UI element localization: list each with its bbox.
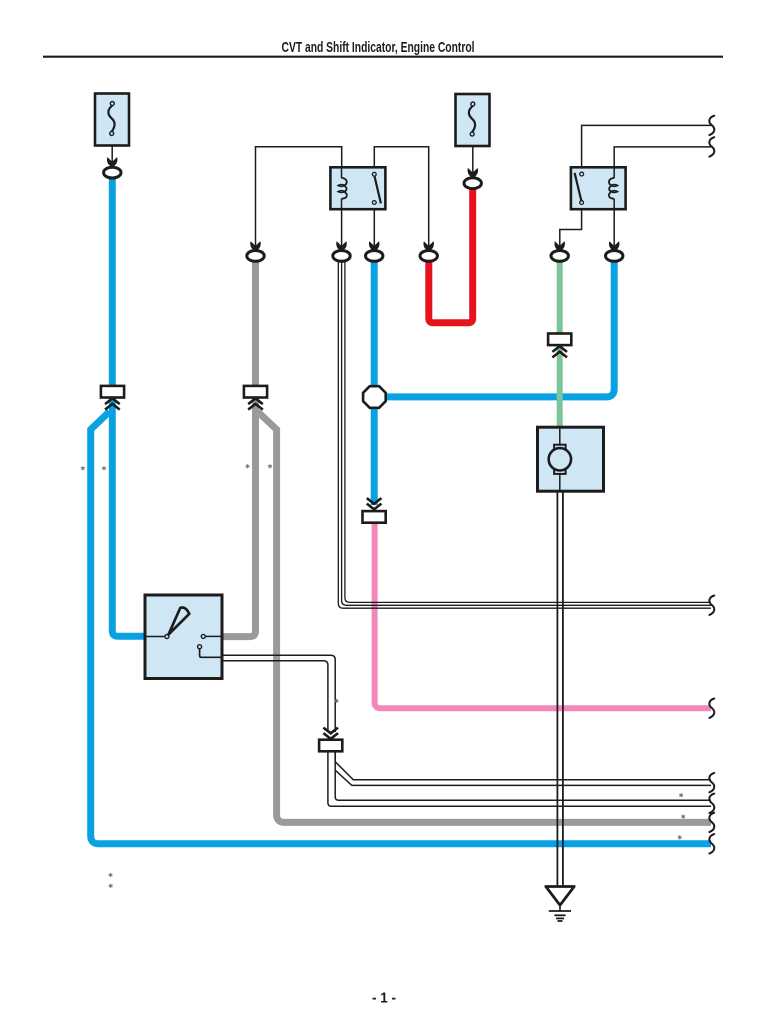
- svg-text:- 1 -: - 1 -: [372, 990, 396, 1007]
- svg-text:CVT and Shift Indicator, Engin: CVT and Shift Indicator, Engine Control: [282, 39, 475, 56]
